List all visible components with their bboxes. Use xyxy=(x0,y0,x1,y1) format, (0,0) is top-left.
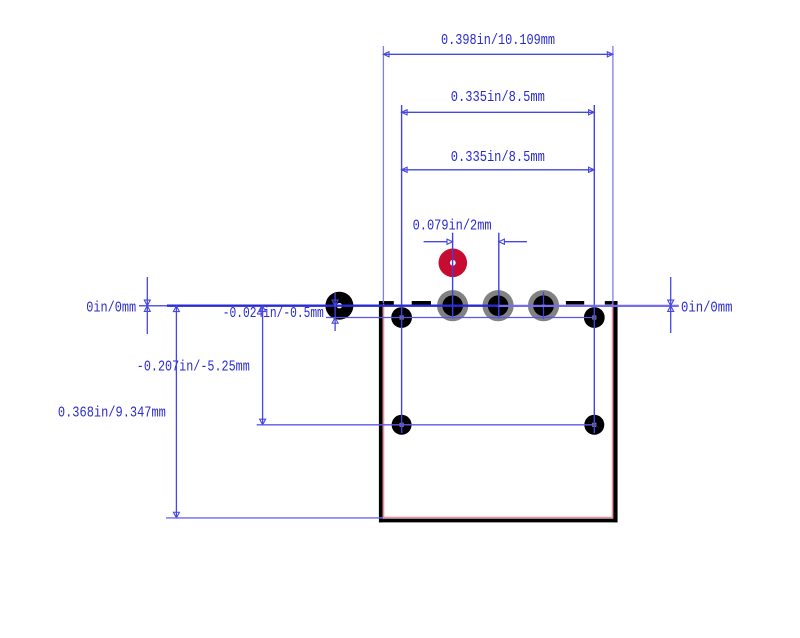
gray pad 2 xyxy=(483,290,514,321)
gray pad 1 xyxy=(437,290,468,321)
zero reference line xyxy=(139,305,679,307)
dimension: body width 0.398in/10.109mm xyxy=(383,46,613,306)
red pad (pin 1 marker) xyxy=(439,248,468,277)
dimension: -0.207in/-5.25mm xyxy=(260,306,266,425)
svg-text:0.335in/8.5mm: 0.335in/8.5mm xyxy=(451,88,545,106)
svg-text:0.368in/9.347mm: 0.368in/9.347mm xyxy=(58,404,166,422)
svg-text:0.335in/8.5mm: 0.335in/8.5mm xyxy=(451,148,545,166)
dimension: -0.024in/-0.5mm xyxy=(332,293,338,331)
body right edge xyxy=(613,301,617,522)
left through-hole pad xyxy=(325,292,353,320)
body bottom line (9.347mm) xyxy=(166,517,383,519)
top-left black pad xyxy=(391,307,412,328)
svg-text:0.398in/10.109mm: 0.398in/10.109mm xyxy=(441,31,555,49)
body left edge xyxy=(379,301,383,522)
top pad row line (-0.5mm) xyxy=(326,317,594,319)
right 0in/0mm marker xyxy=(668,277,674,333)
svg-text:-0.024in/-0.5mm: -0.024in/-0.5mm xyxy=(223,304,324,322)
bottom-right black pad xyxy=(584,415,604,435)
body bottom edge xyxy=(379,519,618,523)
top-right black pad xyxy=(584,307,605,328)
svg-text:-0.207in/-5.25mm: -0.207in/-5.25mm xyxy=(137,358,250,376)
bottom pad row line (-5.25mm) xyxy=(257,424,595,426)
dimension: pad span 0.335in/8.5mm (top row) xyxy=(402,105,595,433)
dimension: pitch 0.079in/2mm xyxy=(453,233,544,319)
left 0in/0mm marker xyxy=(144,277,150,334)
svg-text:0in/0mm: 0in/0mm xyxy=(86,299,136,317)
component body outline (black) xyxy=(379,301,618,522)
svg-text:0in/0mm: 0in/0mm xyxy=(681,299,733,317)
gray pad 3 xyxy=(528,290,559,321)
dimension: 0.368in/9.347mm xyxy=(173,306,179,518)
body top edge dashed xyxy=(379,301,394,305)
svg-text:0.079in/2mm: 0.079in/2mm xyxy=(413,216,492,234)
dimension: pad span 0.335in/8.5mm (bottom row) xyxy=(402,167,595,172)
bottom-left black pad xyxy=(392,415,412,435)
body inner outline (pink) xyxy=(383,304,613,518)
